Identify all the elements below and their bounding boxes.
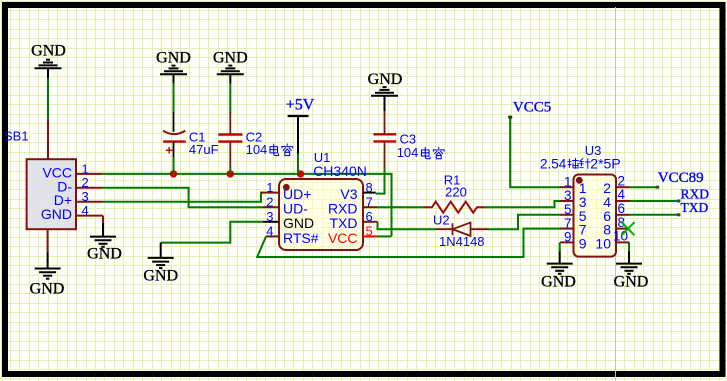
svg-text:1: 1	[82, 161, 89, 176]
wire SB1 bottom to ground	[47, 253, 49, 269]
svg-text:7: 7	[366, 195, 373, 210]
ground GND for U1	[148, 257, 174, 259]
svg-text:CH340N: CH340N	[313, 163, 367, 179]
wire +5V to bus	[297, 154, 299, 174]
wire TXD net	[630, 214, 680, 216]
U1 pin1 dot	[283, 184, 290, 191]
U3 pin 8 stub	[616, 228, 630, 230]
svg-text:8: 8	[618, 215, 626, 230]
svg-text:10: 10	[595, 235, 611, 251]
U3 pin 7 stub	[560, 228, 574, 230]
svg-text:GND: GND	[41, 206, 72, 222]
SB1 bottom pin	[47, 229, 49, 252]
sheet zone divider line	[615, 7, 617, 381]
svg-text:GND: GND	[87, 246, 122, 263]
svg-text:3: 3	[82, 189, 89, 204]
U3 pin 2 stub	[616, 186, 630, 188]
U3 pin 1 stub	[560, 186, 574, 188]
U1 pin 5 VCC	[363, 235, 377, 237]
svg-text:5: 5	[564, 202, 572, 217]
wire R1 to U3 pin3	[485, 201, 561, 207]
svg-text:1N4148: 1N4148	[439, 234, 485, 249]
U3 pin 4 stub	[616, 200, 630, 202]
SB1 pin 1 VCC	[76, 173, 102, 175]
svg-text:GND: GND	[541, 274, 576, 291]
svg-text:U2: U2	[433, 213, 450, 228]
ground GND at SB1 pin4	[90, 236, 116, 238]
svg-text:GND: GND	[156, 50, 191, 67]
svg-text:7: 7	[564, 216, 572, 231]
svg-text:VCC5: VCC5	[513, 100, 551, 116]
svg-text:4: 4	[82, 203, 89, 218]
SB1 pin 2 D-	[76, 187, 102, 189]
svg-text:UD+: UD+	[283, 186, 311, 202]
junction at C1	[170, 170, 177, 177]
wire V3 to C3	[376, 167, 385, 194]
svg-text:UD-: UD-	[283, 201, 308, 217]
svg-text:GND: GND	[31, 43, 66, 60]
U1 pin 2 UD-	[263, 206, 279, 208]
U3 pin 5 stub	[560, 214, 574, 216]
wire C1 to bus	[173, 142, 175, 159]
svg-text:104: 104	[397, 145, 419, 160]
svg-text:GND: GND	[368, 71, 403, 88]
svg-text:+5V: +5V	[286, 97, 315, 114]
junction at C2	[227, 170, 234, 177]
svg-text:RTS#: RTS#	[283, 230, 319, 246]
ground GND above C3	[371, 95, 398, 97]
svg-text:2*5P: 2*5P	[590, 156, 620, 172]
svg-text:6: 6	[366, 209, 373, 224]
wire SB1 pin4 to ground	[102, 216, 104, 224]
U1 pin 4 RTS#	[266, 235, 279, 237]
U3 pin 9 stub	[560, 241, 574, 243]
wire RXD net	[630, 200, 680, 202]
diode U2 symbol	[436, 228, 453, 230]
svg-text:VCC89: VCC89	[658, 170, 704, 186]
capacitor C2 symbol	[218, 133, 242, 135]
no connect X on pin 8	[622, 222, 635, 235]
U3 pin 10 stub	[616, 241, 630, 243]
connector SB1 box	[27, 159, 76, 229]
svg-text:GND: GND	[143, 268, 178, 285]
svg-text:220: 220	[445, 185, 467, 200]
svg-text:TXD: TXD	[681, 200, 709, 215]
wire diode to U3 pin5	[488, 215, 560, 229]
wire GND to C1	[173, 74, 175, 84]
U1 pin 7 RXD	[363, 206, 377, 208]
svg-text:TXD: TXD	[330, 215, 358, 231]
wire VCC89 net	[630, 186, 658, 188]
ground GND at U3 pin9	[547, 263, 573, 265]
svg-text:VCC: VCC	[328, 230, 358, 246]
wire pin9 to ground	[559, 242, 561, 252]
U1 pin 3 GND	[263, 221, 279, 223]
svg-text:9: 9	[579, 235, 587, 251]
wire RTS# net	[257, 229, 561, 257]
wire TXD to diode	[378, 222, 437, 229]
svg-text:GND: GND	[30, 281, 65, 298]
svg-text:47uF: 47uF	[189, 142, 219, 157]
svg-text:GND: GND	[213, 50, 248, 67]
svg-text:2: 2	[266, 195, 273, 210]
wire C2 to bus	[229, 142, 231, 168]
svg-text:9: 9	[564, 230, 572, 245]
svg-text:4: 4	[618, 187, 626, 202]
wire VCC5 to U3 pin1	[510, 117, 560, 187]
ground GND at U3 pin10	[616, 263, 642, 265]
wire U1 VCC to riser	[377, 235, 392, 237]
svg-text:3: 3	[564, 188, 572, 203]
U1 pin 8 V3	[363, 192, 376, 194]
junction at +5V	[297, 170, 304, 177]
ground GND above C1	[160, 73, 187, 75]
SB1 shield pin	[47, 120, 49, 159]
SB1 pin 3 D+	[76, 201, 102, 203]
wire GND to SB1 shield	[47, 68, 49, 79]
U1 pin 1 UD+	[261, 192, 279, 194]
resistor R1 symbol	[424, 202, 485, 213]
wire C3 upper lead	[384, 110, 386, 134]
svg-text:2.54: 2.54	[540, 157, 567, 172]
wire D+ net	[102, 193, 264, 202]
wire GND to C2	[229, 74, 231, 84]
U3 pin 6 stub	[616, 214, 630, 216]
ground GND below SB1	[35, 268, 61, 270]
wire VCC bus	[102, 173, 392, 175]
wire stem U1 ground	[160, 243, 162, 258]
U1 pin 6 TXD	[363, 221, 378, 223]
wire RXD to R1	[377, 206, 424, 208]
svg-text:1: 1	[564, 174, 572, 189]
connector U3 box	[574, 175, 617, 257]
ground GND above C2	[217, 73, 244, 75]
IC U1 box	[279, 179, 363, 250]
svg-text:4: 4	[266, 224, 273, 239]
svg-text:104: 104	[246, 142, 268, 157]
ground GND above SB1	[35, 67, 62, 69]
svg-text:5: 5	[366, 224, 373, 239]
svg-text:3: 3	[266, 209, 273, 224]
wire pin10 to ground	[628, 242, 630, 252]
capacitor C3 symbol	[373, 133, 396, 135]
svg-text:+: +	[165, 143, 173, 158]
wire U1 GND net	[161, 222, 263, 243]
U3 pin1 dot	[576, 177, 583, 184]
capacitor C1 symbol	[163, 131, 185, 134]
wire VCC riser to U1 pin5	[391, 173, 393, 237]
svg-text:GND: GND	[283, 215, 314, 231]
svg-text:1: 1	[266, 180, 273, 195]
svg-text:SB1: SB1	[4, 129, 29, 144]
svg-text:6: 6	[618, 201, 626, 216]
svg-text:GND: GND	[614, 274, 649, 291]
wire D- net	[102, 188, 263, 207]
SB1 pin 4 GND	[76, 215, 103, 217]
svg-text:RXD: RXD	[328, 201, 358, 217]
svg-text:2: 2	[82, 175, 89, 190]
svg-text:V3: V3	[340, 186, 357, 202]
U3 pin 3 stub	[560, 200, 574, 202]
svg-text:8: 8	[366, 180, 373, 195]
wire C3 lower lead	[384, 141, 386, 167]
svg-text:2: 2	[618, 173, 626, 188]
